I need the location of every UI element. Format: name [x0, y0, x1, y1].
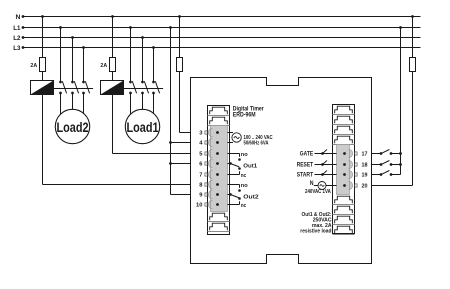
- GATE contact blade: [323, 150, 328, 154]
- relay NO lead pin 5: [228, 153, 240, 155]
- pin dot: [216, 131, 219, 134]
- svg-text:RESET: RESET: [297, 163, 314, 169]
- wire switch S1 to L1 drop: [391, 153, 401, 155]
- switch S1 blade: [381, 150, 389, 154]
- wire N label to AC symbol: [314, 185, 318, 187]
- switch S3 terminals: [380, 173, 383, 176]
- pin dot: [216, 203, 219, 206]
- junction dot A3: [82, 46, 85, 49]
- relay blade: [230, 164, 239, 167]
- junction dot at L1 drop (S1): [399, 152, 402, 155]
- relay common lead pin 9: [228, 194, 231, 196]
- pin dot: [216, 152, 219, 155]
- svg-text:240VAC 1VA: 240VAC 1VA: [305, 189, 331, 195]
- svg-text:START: START: [297, 173, 314, 179]
- node L2 terminal dot: [22, 36, 25, 39]
- wire RESET to pin: [315, 164, 337, 166]
- terminal nub pin 4: [205, 141, 207, 144]
- wire contact to load A: [72, 93, 74, 109]
- relay NO lead pin 8: [228, 184, 240, 186]
- wire: phase drop A3: [83, 48, 85, 83]
- connector strip: [337, 145, 353, 195]
- junction dot B1: [129, 26, 132, 29]
- junction dot B2: [141, 36, 144, 39]
- wire contact to load B: [153, 93, 155, 113]
- svg-text:50/60Hz 6VA: 50/60Hz 6VA: [244, 140, 269, 146]
- svg-text:N: N: [310, 181, 314, 187]
- junction dot on L1 right: [399, 26, 402, 29]
- NO contact dot: [238, 158, 241, 161]
- svg-text:7: 7: [199, 173, 202, 179]
- wire: phase drop A2: [72, 38, 74, 83]
- contact blade B3: [155, 81, 159, 93]
- timer module outline ERD-96M: [191, 78, 372, 264]
- pin dot: [216, 162, 219, 165]
- junction dot pin4 branch: [169, 141, 172, 144]
- contactor coil KB: [101, 81, 124, 95]
- pin dot: [343, 163, 346, 166]
- left terminal column frame: [208, 106, 230, 235]
- wire: rail L2: [23, 37, 421, 39]
- terminal nub pin 3: [205, 131, 207, 134]
- wire: coil B bottom to pin 5: [112, 95, 114, 154]
- svg-text:ERD-96M: ERD-96M: [233, 112, 256, 119]
- load Load2: [55, 109, 89, 143]
- connector strip: [208, 126, 227, 212]
- svg-text:10: 10: [196, 203, 202, 209]
- wire: rail N: [23, 16, 421, 18]
- junction dot on N right: [411, 15, 414, 18]
- wire: phase drop B1: [130, 28, 132, 83]
- contact blade A2: [74, 81, 78, 93]
- wire AC symbol to pin 20: [326, 185, 337, 187]
- pin dot: [343, 152, 346, 155]
- svg-text:18: 18: [362, 163, 369, 169]
- wire N to fuse F4: [412, 17, 414, 58]
- terminal cell: [208, 107, 230, 115]
- svg-text:L3: L3: [13, 45, 20, 52]
- switch S2 blade: [381, 161, 389, 165]
- terminal cell: [333, 116, 355, 124]
- contact blade A3: [85, 81, 89, 93]
- switch S1 terminals: [380, 152, 383, 155]
- terminal cell: [208, 223, 230, 231]
- svg-text:17: 17: [362, 152, 368, 158]
- AC supply symbol U~: [232, 133, 241, 142]
- right terminal column frame: [333, 105, 355, 234]
- wire fuse to coil B: [112, 72, 114, 81]
- contact terminals A3: [82, 81, 85, 84]
- terminal nub pin 6: [205, 162, 207, 165]
- NO contact dot: [238, 189, 241, 192]
- START contact dot: [321, 173, 324, 176]
- fuse FB 2A: [112, 58, 114, 72]
- junction dot B3: [152, 46, 155, 49]
- pin dot: [216, 193, 219, 196]
- wire: phase drop B3: [153, 48, 155, 83]
- START contact blade: [323, 171, 328, 175]
- wire contact to load B: [130, 93, 132, 114]
- pin dot: [343, 184, 346, 187]
- wire: L1 drop right to switches: [400, 28, 402, 175]
- svg-text:2A: 2A: [100, 63, 107, 69]
- switch S3 blade: [381, 171, 389, 175]
- NC contact dot: [238, 167, 241, 170]
- wire: phase drop A1: [60, 28, 62, 83]
- terminal cell: [333, 226, 355, 234]
- pin dot: [216, 141, 219, 144]
- terminal cell: [333, 216, 355, 224]
- contact blade B2: [144, 81, 148, 93]
- terminal nub pin 18: [355, 163, 357, 166]
- relay blade: [230, 195, 239, 198]
- wire pin4 stub: [228, 142, 234, 144]
- wire fuse F3 to pin 3: [179, 72, 181, 133]
- terminal nub pin 10: [205, 203, 207, 206]
- svg-text:Load2: Load2: [57, 120, 89, 136]
- wire to pin 6: [171, 163, 191, 165]
- svg-text:Load1: Load1: [127, 120, 159, 136]
- wire START to pin: [315, 174, 337, 176]
- wire fuse to coil A: [42, 72, 44, 81]
- relay NC lead pin 7: [228, 174, 240, 176]
- contact terminals B1: [129, 81, 132, 84]
- svg-text:20: 20: [362, 184, 368, 190]
- wire switch S3 to L1 drop: [391, 174, 401, 176]
- wire pin3 stub: [228, 132, 234, 134]
- terminal cell: [333, 136, 355, 144]
- pin dot: [216, 183, 219, 186]
- wire contact to load A: [83, 93, 85, 113]
- contact terminals A1: [59, 81, 62, 84]
- svg-text:L1: L1: [13, 25, 20, 32]
- mechanical link KB: [124, 88, 164, 90]
- mechanical link KA: [54, 88, 94, 90]
- junction dot at L1 drop (S2): [399, 163, 402, 166]
- terminal nub pin 17: [355, 152, 357, 155]
- node L3 terminal dot: [22, 46, 25, 49]
- wire to pin 4: [171, 142, 191, 144]
- terminal nub pin 9: [205, 193, 207, 196]
- RESET contact dot: [321, 163, 324, 166]
- fuse FA 2A: [42, 58, 44, 72]
- contact terminals B3: [152, 81, 155, 84]
- contact blade A1: [62, 81, 66, 93]
- wire: rail L1: [23, 27, 421, 29]
- load Load1: [125, 109, 159, 143]
- wire N to fuse B: [112, 17, 114, 58]
- wire: fuse F4 to pin 20: [412, 72, 414, 186]
- wire contact to load B: [142, 93, 144, 109]
- terminal nub pin 5: [205, 152, 207, 155]
- RESET contact blade: [323, 161, 328, 165]
- fuse F3: [179, 58, 181, 72]
- junction dot N for fuse B: [111, 15, 114, 18]
- junction dot A2: [71, 36, 74, 39]
- terminal cell: [333, 106, 355, 114]
- switch S2 terminals: [380, 163, 383, 166]
- wire: rail L3: [23, 47, 421, 49]
- wire switch S2 to L1 drop: [391, 164, 401, 166]
- junction dot on N for timer supply: [178, 15, 181, 18]
- node N terminal dot: [22, 15, 25, 18]
- svg-text:Out2: Out2: [243, 195, 258, 201]
- wire N to fuse F3: [179, 17, 181, 58]
- junction dot pin6 branch: [169, 162, 172, 165]
- fuse F4: [412, 58, 414, 72]
- junction dot on L1: [169, 26, 172, 29]
- NC contact dot: [238, 197, 241, 200]
- svg-text:no: no: [241, 183, 248, 189]
- wire: coil A bottom to pin 8: [42, 95, 44, 185]
- wire: L1 drop to pins 4 6 9: [170, 28, 172, 195]
- contact terminals A2: [71, 81, 74, 84]
- svg-text:resistive load: resistive load: [300, 228, 331, 234]
- terminal cell: [333, 196, 355, 204]
- pin dot: [216, 173, 219, 176]
- terminal cell: [208, 117, 230, 125]
- svg-text:L2: L2: [13, 35, 20, 42]
- svg-text:nc: nc: [241, 203, 247, 209]
- wire N to fuse A: [42, 17, 44, 58]
- svg-text:nc: nc: [241, 173, 247, 179]
- contact terminals B2: [141, 81, 144, 84]
- relay NC lead pin 10: [228, 204, 240, 206]
- wire: phase drop B2: [142, 38, 144, 83]
- terminal cell: [333, 126, 355, 134]
- svg-text:N: N: [16, 14, 21, 21]
- relay common lead pin 6: [228, 163, 231, 165]
- svg-text:19: 19: [362, 173, 369, 179]
- junction dot N for fuse A: [41, 15, 44, 18]
- svg-text:Out1: Out1: [243, 164, 257, 170]
- junction dot A1: [59, 26, 62, 29]
- contact blade B1: [132, 81, 136, 93]
- wire contact to load A: [60, 93, 62, 114]
- wire pin to switch S1: [372, 153, 382, 155]
- terminal nub pin 20: [355, 184, 357, 187]
- svg-text:2A: 2A: [30, 63, 37, 69]
- contactor coil KA: [31, 81, 54, 95]
- terminal nub pin 8: [205, 183, 207, 186]
- wire GATE to pin: [315, 153, 337, 155]
- terminal nub pin 19: [355, 173, 357, 176]
- svg-text:no: no: [241, 152, 248, 158]
- terminal cell: [333, 206, 355, 214]
- AC symbol right: [318, 182, 326, 190]
- terminal nub pin 7: [205, 173, 207, 176]
- svg-text:GATE: GATE: [300, 152, 313, 158]
- terminal cell: [208, 213, 230, 221]
- GATE contact dot: [321, 152, 324, 155]
- node L1 terminal dot: [22, 26, 25, 29]
- wire pin to switch S3: [372, 174, 382, 176]
- wire pin to switch S2: [372, 164, 382, 166]
- pin dot: [343, 173, 346, 176]
